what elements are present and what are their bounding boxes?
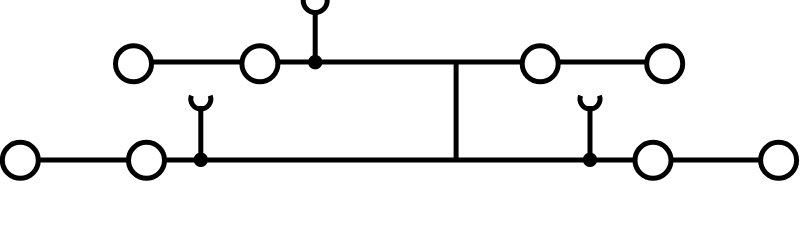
junction dot on bottom rail (right) (583, 153, 597, 167)
terminal contact 4 (top level, right) (647, 46, 683, 82)
terminal contact 7 (bottom level) (635, 142, 671, 178)
test socket arc (right) (580, 96, 600, 109)
wire: top rail (134, 60, 665, 65)
junction dot on top rail (308, 55, 322, 69)
wire: bottom rail (20, 158, 778, 163)
terminal contact 6 (bottom level) (129, 142, 165, 178)
terminal contact 8 (bottom level, far right) (761, 142, 797, 178)
wire: vertical cross-connection between rails (454, 62, 459, 160)
wire: right test-socket stem (588, 106, 593, 160)
terminal contact 1 (top level, left) (116, 46, 152, 82)
terminal contact 3 (top level) (522, 46, 558, 82)
terminal contact 5 (bottom level, far left, clipped) (2, 142, 38, 178)
wire: stem from top plug contact to junction (313, 10, 318, 62)
test socket arc (left) (191, 96, 211, 109)
wire: left test-socket stem (198, 106, 203, 160)
plug contact ring (top, clipped at image edge) (303, 0, 327, 13)
terminal contact 2 (top level) (242, 46, 278, 82)
junction dot on bottom rail (left) (194, 153, 208, 167)
